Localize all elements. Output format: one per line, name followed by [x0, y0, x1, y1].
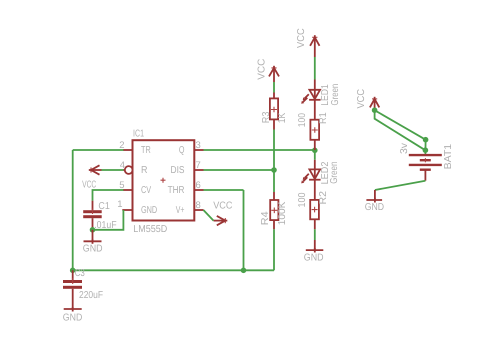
wire R2 to ground: [314, 229, 316, 240]
svg-text:100: 100: [297, 113, 308, 128]
svg-text:8: 8: [196, 200, 201, 211]
svg-text:220uF: 220uF: [79, 290, 103, 301]
svg-text:3: 3: [196, 140, 201, 151]
wire pin8 to VCC: [203, 210, 213, 221]
IC1 pin 7 DIS: [194, 160, 203, 171]
wire THR vertical: [243, 190, 245, 270]
LED LED2 Green: [301, 160, 340, 185]
battery BAT1 3v: [399, 143, 454, 181]
IC IC1 LM555D body: [133, 129, 195, 236]
resistor R1 100: [297, 100, 329, 150]
wire VCC to LED1: [314, 57, 316, 80]
svg-text:7: 7: [196, 160, 201, 171]
wire left rail vertical: [72, 150, 74, 270]
capacitor C3 220uF: [63, 268, 103, 309]
supply VCC at pin 8: [213, 201, 232, 226]
svg-text:C3: C3: [75, 268, 85, 279]
svg-text:R4: R4: [260, 211, 271, 225]
ground under C1: [83, 230, 103, 255]
ground under battery: [365, 190, 384, 213]
wire junction to battery: [424, 140, 426, 155]
svg-text:C1: C1: [98, 201, 110, 212]
wire Q output: [204, 149, 315, 151]
resistor R2 100: [297, 180, 329, 230]
wire VCC to battery (upper diagonal): [375, 110, 426, 140]
supply VCC above battery: [356, 89, 379, 110]
ground under C3: [63, 307, 83, 324]
svg-text:GND: GND: [83, 243, 103, 254]
IC1 pin 3 Q: [194, 140, 203, 151]
svg-text:GND: GND: [365, 202, 384, 213]
supply VCC above LED1: [296, 28, 319, 57]
wire R3 to R4 (through DIS node): [273, 130, 275, 193]
wire pin4 to VCC: [102, 169, 124, 171]
svg-text:Green: Green: [329, 162, 340, 184]
svg-text:1K: 1K: [277, 112, 288, 123]
svg-text:1: 1: [117, 199, 122, 210]
svg-text:VCC: VCC: [356, 89, 367, 109]
svg-text:TR: TR: [141, 145, 151, 156]
junction battery top lower: [423, 147, 429, 153]
junction Q / LED chain: [312, 148, 318, 154]
IC1 pin 8 V+: [194, 200, 203, 211]
capacitor C1 .01uF: [83, 201, 116, 231]
wire pin5 to C1: [93, 190, 124, 201]
svg-text:3v: 3v: [399, 143, 410, 154]
svg-text:GND: GND: [304, 253, 324, 264]
svg-text:VCC: VCC: [296, 28, 307, 48]
svg-text:100K: 100K: [277, 201, 288, 225]
wire battery to ground: [375, 181, 426, 190]
wire Q node to LED2: [314, 150, 316, 160]
junction C1 / GND net: [90, 227, 96, 233]
svg-text:VCC: VCC: [82, 179, 96, 190]
svg-text:DIS: DIS: [171, 165, 185, 176]
wire THR horizontal: [204, 189, 244, 191]
svg-text:R1: R1: [318, 112, 329, 124]
svg-text:CV: CV: [141, 185, 151, 196]
svg-text:R2: R2: [318, 191, 329, 205]
IC1 pin 6 THR: [194, 180, 203, 191]
wire DIS: [204, 169, 275, 171]
wire bottom rail: [73, 269, 274, 271]
svg-text:R3: R3: [261, 111, 272, 123]
svg-text:100: 100: [297, 192, 308, 207]
resistor R3 1K: [261, 93, 288, 130]
junction bottom rail / C3: [70, 268, 76, 274]
svg-text:THR: THR: [168, 185, 185, 196]
wire C1 to pin1: [93, 210, 124, 230]
IC1 pin 5 CV: [119, 180, 132, 191]
junction VCC / battery wires: [372, 107, 378, 113]
IC1 pin 1 GND: [117, 199, 132, 210]
junction DIS node: [271, 167, 277, 173]
svg-text:6: 6: [196, 180, 201, 191]
wire R4 to bottom rail: [273, 229, 275, 270]
svg-text:VCC: VCC: [257, 59, 268, 80]
junction bottom rail / THR: [241, 268, 247, 274]
svg-text:GND: GND: [63, 313, 83, 324]
svg-text:Q: Q: [179, 145, 185, 156]
svg-text:Green: Green: [330, 84, 341, 106]
supply VCC above R3: [257, 59, 280, 82]
resistor R4 100K: [260, 192, 288, 229]
junction battery top upper: [423, 137, 429, 143]
supply VCC at pin 4: [82, 165, 101, 190]
svg-text:IC1: IC1: [133, 129, 144, 140]
svg-text:VCC: VCC: [213, 201, 232, 212]
ground under R2: [304, 240, 324, 264]
svg-text:V+: V+: [176, 205, 185, 216]
LED LED1 Green: [301, 80, 341, 106]
IC1 pin 2 TR: [119, 140, 132, 151]
svg-text:LM555D: LM555D: [133, 224, 167, 235]
wire VCC to R3: [273, 82, 275, 93]
svg-text:BAT1: BAT1: [443, 143, 454, 169]
svg-text:R: R: [141, 165, 148, 176]
wire TR to left rail: [73, 149, 124, 151]
wire VCC to battery (lower diagonal): [375, 110, 426, 150]
IC1 pin 4 R inverting bubble: [120, 160, 133, 174]
svg-text:GND: GND: [141, 205, 157, 216]
